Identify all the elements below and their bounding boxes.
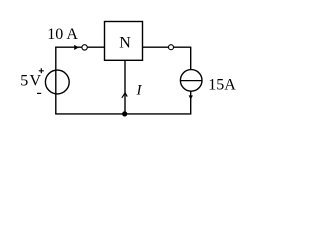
current source circle — [180, 70, 202, 92]
wire: top-left horizontal — [55, 46, 104, 48]
svg-text:I: I — [136, 83, 143, 99]
svg-text:10 A: 10 A — [47, 26, 78, 43]
arrowhead I (up) — [122, 93, 127, 98]
middle vertical wire — [124, 61, 126, 115]
left vertical wire — [55, 47, 57, 114]
svg-text:5 V: 5 V — [20, 73, 41, 90]
junction node dot — [122, 111, 127, 116]
right horizontal wire — [143, 46, 191, 48]
arrowhead on current source wire (down) — [189, 95, 193, 99]
svg-text:N: N — [119, 35, 131, 52]
bottom wire — [55, 113, 191, 115]
two-terminal network box N — [105, 22, 143, 61]
terminal b (open circle) — [169, 45, 174, 50]
plus polarity mark — [39, 68, 44, 73]
right vertical wire upper — [190, 47, 192, 70]
voltage source circle — [45, 70, 69, 94]
svg-text:15A: 15A — [208, 77, 236, 94]
minus polarity mark — [37, 92, 41, 94]
current source bar — [181, 80, 202, 82]
terminal a (open circle) — [82, 45, 87, 50]
right vertical wire lower — [190, 92, 192, 115]
arrowhead on 10A wire (current direction right) — [74, 45, 79, 50]
